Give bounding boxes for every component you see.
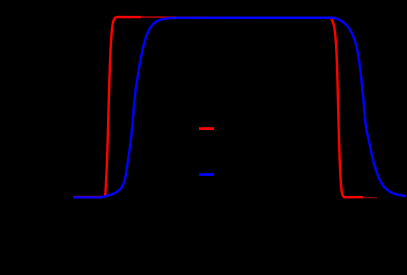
legend red line sample — [199, 127, 214, 130]
red curve: steep fall and right baseline — [330, 18, 363, 198]
blue curve (gradual filter response) — [73, 18, 406, 198]
red curve fading tail — [363, 197, 377, 199]
red curve: thin passband section running just above the blue line — [141, 16, 332, 18]
legend blue line sample — [199, 173, 214, 176]
red curve: steep rise and bright passband edge — [104, 17, 141, 197]
red curve: left baseline (runs under the blue line) — [73, 196, 105, 198]
